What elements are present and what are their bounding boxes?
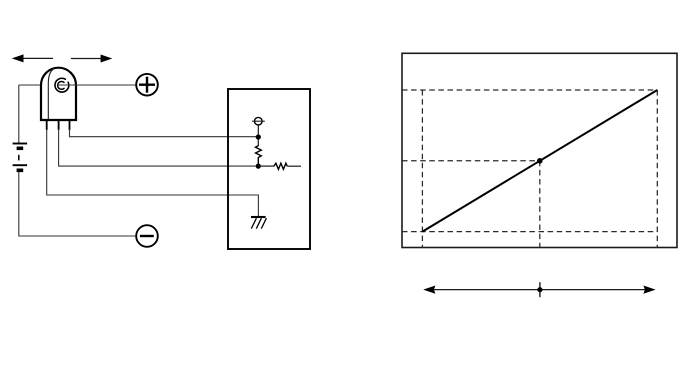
sensor lead 2 (middle) bbox=[58, 120, 60, 130]
sensor lead 3 (right) bbox=[69, 120, 71, 130]
node B junction dot bbox=[256, 164, 261, 169]
wire lead3 to node A bbox=[70, 129, 259, 137]
wire lead2 to node B bbox=[59, 129, 259, 166]
resistor R2 (horizontal) with output wire bbox=[258, 163, 301, 169]
battery BT1 bbox=[13, 85, 28, 170]
gridline top dashed bbox=[402, 89, 657, 91]
sensor U1 body bbox=[41, 68, 76, 120]
gridline right vertical dashed bbox=[656, 90, 658, 248]
gridline bottom dashed bbox=[402, 231, 657, 233]
wire battery to minus terminal bbox=[19, 172, 137, 236]
sensor inner C mark bbox=[58, 81, 64, 89]
axis center tick bbox=[539, 282, 541, 297]
position axis arrow bbox=[423, 286, 655, 294]
wire terminal to node A bbox=[257, 125, 259, 146]
transfer curve (diagonal) bbox=[422, 90, 657, 232]
wire battery to sensor bbox=[19, 84, 42, 86]
controller box bbox=[228, 89, 310, 249]
terminal minus bbox=[136, 225, 158, 247]
graph frame bbox=[402, 53, 677, 247]
output terminal (circle with bar) bbox=[252, 117, 265, 125]
wire sensor to plus terminal bbox=[58, 84, 137, 86]
sensor hole bbox=[55, 78, 69, 92]
midpoint dot bbox=[537, 158, 543, 164]
terminal plus bbox=[136, 74, 158, 96]
motion arrow left bbox=[12, 54, 53, 62]
wire lead1 to ground node bbox=[47, 129, 259, 217]
gridline middle horizontal dashed bbox=[402, 160, 540, 162]
ground bbox=[251, 217, 266, 229]
resistor R1 (vertical) bbox=[256, 146, 262, 166]
sensor lead 1 (left) bbox=[46, 120, 48, 130]
gridline middle vertical dashed bbox=[539, 161, 541, 248]
motion arrow right bbox=[71, 55, 112, 63]
axis center dot bbox=[537, 287, 542, 292]
gridline left vertical dashed bbox=[421, 90, 423, 248]
node A junction dot bbox=[256, 134, 261, 139]
